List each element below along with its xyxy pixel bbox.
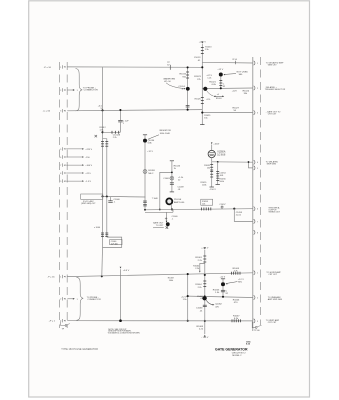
- label left of V8: [181, 297, 187, 302]
- note text block: [108, 329, 140, 335]
- svg-text:2.2k: 2.2k: [113, 137, 117, 139]
- junction H fork: [248, 161, 250, 163]
- right pin 7: [254, 219, 258, 223]
- label right of lamp: [178, 177, 184, 182]
- svg-text:R1016: R1016: [180, 74, 187, 76]
- svg-text:1: 1: [77, 299, 78, 301]
- label C1054 .001: [219, 172, 226, 177]
- wire G output bus: [145, 209, 253, 210]
- label C1011 1uF: [123, 121, 130, 126]
- hatch on pair lower ends: [101, 233, 108, 237]
- resistor R1061: [203, 256, 206, 262]
- svg-text:4: 4: [257, 162, 258, 164]
- left pin 10: [60, 297, 65, 301]
- label B1059 NE-2: [148, 170, 155, 175]
- wire +6.5V vertical V7: [120, 267, 122, 321]
- svg-text:2: 2: [257, 88, 258, 90]
- right pin 9 label: [266, 271, 281, 276]
- svg-text:-P = 16: -P = 16: [47, 277, 55, 279]
- junction V7 wire K: [119, 319, 122, 322]
- left pin 3: [60, 109, 65, 113]
- right connector strip rails: [253, 57, 261, 331]
- svg-text:2: 2: [60, 90, 61, 92]
- svg-text:-P = 16: -P = 16: [44, 67, 52, 69]
- svg-text:AMP SWP GEN: AMP SWP GEN: [268, 298, 283, 301]
- resistor chain B: [216, 162, 220, 185]
- label x1040: [94, 227, 101, 229]
- right pins 4-5 label: [266, 161, 279, 166]
- capacitor tick on V2: [186, 106, 190, 107]
- junction bus A / V2: [187, 66, 189, 68]
- label R1023 27k: [194, 76, 201, 81]
- Q1062 emitter arrow: [206, 300, 214, 305]
- wire V1 to R1012 node: [102, 110, 104, 138]
- right pin 8: [254, 230, 258, 234]
- label R1067 8.2k: [233, 316, 240, 321]
- left pin 3 label: [43, 111, 51, 113]
- wire to right pin 2: [202, 87, 253, 90]
- svg-text:3: 3: [257, 113, 258, 115]
- drawing number 1066: [246, 341, 251, 345]
- capacitor C on Q1064 emitter: [221, 290, 225, 292]
- svg-text:-C = 06: -C = 06: [43, 111, 51, 113]
- wire K bottom bus: [67, 320, 253, 322]
- chain ground bar: [170, 191, 174, 193]
- svg-text:5: 5: [60, 149, 61, 151]
- label R1066 470 below wire J: [233, 300, 240, 305]
- svg-text:+12 V: +12 V: [238, 279, 244, 281]
- leader to gate blob: [153, 227, 164, 229]
- left pin 2: [60, 88, 65, 92]
- right pin 3: [254, 111, 258, 115]
- polarity mark on gate stub: [165, 217, 167, 219]
- right pin 10 label: [268, 296, 283, 301]
- svg-text:VOLTAGES & CONDITIONS SHOWN: VOLTAGES & CONDITIONS SHOWN: [108, 331, 140, 334]
- test point TP below left pin 11: [61, 322, 70, 331]
- junction dots wire F: [101, 195, 107, 197]
- left supply pin arrow 5: [66, 156, 84, 158]
- svg-text:2: 2: [257, 297, 258, 299]
- svg-text:2: 2: [60, 299, 61, 301]
- label +12V on chain: [147, 151, 153, 153]
- left supply pin arrow 8: [66, 180, 84, 182]
- wire vertical V3: [201, 44, 203, 125]
- label C 82: [226, 290, 229, 295]
- svg-text:+225 V: +225 V: [199, 42, 207, 44]
- label R1063 1.5k: [213, 289, 220, 294]
- supply +225V bottom: [201, 247, 209, 249]
- junction Q1019 wire D: [220, 87, 222, 89]
- resistor R1013: [201, 48, 204, 54]
- capacitor C1063 bars: [203, 305, 207, 306]
- label +6.5V at junction: [98, 106, 103, 111]
- tube V1050: [208, 150, 215, 157]
- capacitor C1011 branch: [118, 110, 122, 132]
- Q1064 emitter to wire J: [222, 286, 224, 297]
- transistor Q1034: [143, 139, 147, 143]
- svg-text:1: 1: [77, 90, 78, 92]
- svg-text:R1061: R1061: [195, 257, 202, 259]
- junction V8 wire I: [187, 273, 189, 275]
- tick mark x left of node: [95, 135, 97, 137]
- svg-text:- 150 V: - 150 V: [209, 189, 216, 191]
- capacitor C1046 boxed label: [110, 240, 122, 246]
- svg-text:TIMING CKT: TIMING CKT: [268, 211, 280, 213]
- svg-text:V1050A: V1050A: [217, 150, 226, 153]
- RC pair lower run: [103, 196, 107, 247]
- svg-text:SWP GEN: SWP GEN: [267, 164, 277, 166]
- hatch on RC pair: [101, 142, 108, 147]
- gate out lower wire: [145, 210, 173, 213]
- svg-text:6: 6: [60, 157, 61, 159]
- svg-text:- 150 V: - 150 V: [201, 337, 209, 339]
- junction loop top: [171, 172, 173, 174]
- junction Q1064 wire J: [222, 296, 224, 298]
- svg-text:2x.01: 2x.01: [236, 214, 242, 216]
- wire tube cathode to H: [211, 158, 213, 162]
- svg-text:NE-2: NE-2: [148, 173, 154, 175]
- left pin 7: [60, 171, 65, 175]
- transistor Q1014: [186, 87, 190, 91]
- R1045 C1043 chain: [170, 161, 174, 192]
- svg-text:8: 8: [257, 232, 258, 234]
- label C1062 near V5 wire J: [197, 296, 204, 300]
- wire mid bus C: [67, 110, 202, 111]
- wire F from sweep box: [103, 195, 146, 198]
- label C1040 .1 right of stub: [172, 216, 179, 221]
- junction V1 bottom: [101, 275, 103, 277]
- svg-text:+12 V: +12 V: [217, 69, 223, 71]
- left pin 11 label: [49, 321, 56, 323]
- resistor R1058 on wire G: [201, 199, 213, 210]
- left pin 8: [60, 179, 65, 183]
- label C1013 .01: [194, 57, 201, 62]
- svg-text:TO CRT: TO CRT: [156, 225, 164, 227]
- junction V3 / wire E: [201, 112, 203, 114]
- svg-text:+12 V: +12 V: [220, 277, 226, 279]
- test point below right strip: [252, 322, 261, 333]
- right pin 9: [254, 271, 258, 275]
- svg-text:R1021: R1021: [209, 81, 216, 83]
- right pin 3 label: [266, 111, 281, 116]
- neon lamp B1059: [143, 170, 147, 174]
- right pin 11: [254, 319, 258, 323]
- svg-text:R1045: R1045: [174, 165, 181, 167]
- left supply pin arrow 6: [66, 164, 84, 166]
- tube Q1040: [166, 198, 172, 204]
- brace to probe connector (top): [76, 69, 83, 111]
- junction V5 wire K: [204, 320, 206, 322]
- resistor R1067 on wire K: [232, 319, 241, 322]
- wire vertical V8: [187, 274, 189, 321]
- label R1025 4.7k: [195, 99, 212, 102]
- wire vertical V2: [187, 67, 189, 109]
- svg-text:TRIGGER SELECTOR: TRIGGER SELECTOR: [265, 89, 286, 91]
- svg-text:+12V: +12V: [232, 91, 238, 93]
- double arrow symbol below wire D: [207, 91, 224, 97]
- svg-text:Q1062: Q1062: [215, 304, 222, 306]
- label C1043: [163, 178, 170, 180]
- label below double arrow: [216, 98, 222, 100]
- right pin 11 label: [266, 319, 280, 324]
- svg-text:3: 3: [257, 321, 258, 323]
- label R1051 15k: [204, 165, 211, 170]
- wire top bus A: [67, 66, 202, 68]
- svg-text:B1059: B1059: [148, 170, 155, 172]
- svg-text:+12 V: +12 V: [147, 151, 153, 153]
- svg-text:8: 8: [60, 173, 61, 175]
- label C82: [223, 84, 226, 89]
- junction V8 wire J: [187, 295, 189, 297]
- label C1014 4.7: [178, 86, 185, 91]
- svg-text:CRT CKT: CRT CKT: [268, 274, 277, 276]
- wire V1 lowest to bottom bus: [101, 247, 104, 276]
- capacitor C1040 stub: [108, 197, 120, 203]
- junction bus A / V3: [201, 66, 203, 68]
- label C1058: [236, 212, 243, 217]
- junction H chainB: [217, 161, 219, 163]
- left pin 4: [60, 147, 65, 151]
- wire B1059 chain: [144, 143, 146, 210]
- junction loop bottom: [159, 209, 161, 211]
- svg-text:1: 1: [60, 277, 61, 279]
- label on wire I left: [168, 277, 175, 281]
- junction V8 wire K: [187, 320, 189, 322]
- label R1056 100k: [219, 179, 226, 184]
- junction R1012 node: [101, 131, 103, 133]
- svg-text:1: 1: [60, 67, 61, 69]
- wire vertical V5: [204, 250, 206, 334]
- left supply pin label -1.5 V: [85, 181, 91, 183]
- label -150V ground: [209, 189, 216, 191]
- label R1021 6.8k: [209, 81, 216, 86]
- svg-text:CRT CKT: CRT CKT: [268, 322, 277, 324]
- small caps on chain: [143, 201, 147, 206]
- right pin 1 label: [266, 61, 284, 66]
- resistor R1065 on wire I: [232, 272, 241, 275]
- right pin 10: [254, 295, 258, 299]
- svg-text:6: 6: [257, 209, 258, 211]
- label resistor 100k with leader: [148, 130, 171, 139]
- svg-text:7: 7: [60, 165, 61, 167]
- svg-text:7: 7: [257, 221, 258, 223]
- svg-text:1/2 6U8: 1/2 6U8: [217, 154, 226, 156]
- wire I lower bus: [67, 273, 253, 277]
- left supply pin arrow 4: [66, 148, 84, 150]
- capacitor on chain: [170, 183, 174, 185]
- bottom labels chain: [200, 182, 207, 187]
- supply tick above tube: [211, 142, 220, 145]
- right pin 6 label: [268, 206, 280, 213]
- wire tube top lead: [211, 145, 213, 151]
- sweep box caption: [81, 201, 96, 205]
- label R1064 2.2k: [195, 284, 202, 289]
- wire vertical from bus A to bus C: [102, 67, 104, 110]
- svg-text:R1068: R1068: [197, 326, 204, 328]
- wire to right pin 1: [202, 61, 253, 64]
- resistor R1012 horizontal: [103, 131, 121, 134]
- svg-text:+100 V: +100 V: [85, 165, 92, 167]
- resistor R1025: [201, 98, 204, 104]
- right pin 2: [254, 86, 258, 90]
- svg-text:R1023: R1023: [194, 76, 201, 78]
- label R1024 33k below wire D: [243, 91, 250, 96]
- left pin 6: [60, 163, 65, 167]
- svg-text:1uF 400: 1uF 400: [111, 243, 118, 245]
- junction Q1062 wire J: [204, 295, 206, 297]
- label R1065 4.7k: [233, 268, 240, 273]
- left pin 2 stub arrow: [67, 89, 77, 92]
- tick R56 on wire: [233, 59, 238, 64]
- left pin 5: [60, 155, 65, 159]
- label R1029 15k: [204, 115, 211, 120]
- svg-text:CRT CKT: CRT CKT: [268, 114, 277, 116]
- svg-text:+225 V: +225 V: [85, 149, 92, 151]
- label C1049 .01: [178, 186, 185, 191]
- label R1012 1.5k: [100, 127, 107, 131]
- supply +225V top: [199, 42, 207, 44]
- label above double arrow: [217, 94, 219, 96]
- svg-text:CONNECTOR: CONNECTOR: [87, 299, 101, 301]
- svg-text:+22.5: +22.5: [85, 173, 91, 175]
- transistor Q1064: [221, 282, 225, 286]
- svg-text:+P = 1: +P = 1: [49, 321, 56, 323]
- svg-text:+100V: +100V: [213, 144, 220, 146]
- label to probe connector (top): [83, 87, 98, 91]
- wire to right pin 3: [202, 112, 253, 114]
- junction wire G branch: [233, 208, 235, 210]
- right pin 1: [254, 61, 258, 65]
- wire H to right pins 4/5: [212, 162, 253, 168]
- label R1062 2.2k: [193, 266, 200, 271]
- right pin 2 label: [265, 86, 286, 91]
- svg-text:C1013: C1013: [194, 57, 201, 59]
- svg-text:+225 V: +225 V: [201, 247, 209, 249]
- parallel RC pair rails: [103, 139, 107, 197]
- svg-text:C1014: C1014: [178, 86, 185, 88]
- label C1012B below: [113, 134, 121, 138]
- label Q1034: [148, 140, 155, 145]
- svg-text:(SWP GEN) CKT: (SWP GEN) CKT: [81, 203, 96, 205]
- svg-text:Q1034: Q1034: [148, 140, 155, 142]
- svg-text:NOT USED: NOT USED: [237, 71, 249, 73]
- neon lamp C1043: [170, 176, 174, 180]
- svg-text:3: 3: [60, 111, 61, 113]
- left pin 9 label: [47, 277, 55, 279]
- svg-text:PULSE: PULSE: [174, 199, 182, 201]
- svg-text:100k 1040: 100k 1040: [160, 133, 171, 135]
- svg-text:9: 9: [60, 181, 61, 183]
- junction G left end: [144, 209, 146, 211]
- supply -150V bottom: [201, 335, 209, 339]
- gate out stub and blob: [166, 212, 170, 229]
- label gate out to crt: [153, 221, 164, 226]
- left pin 1 label: [44, 67, 52, 69]
- branch to right pin 7: [234, 209, 253, 222]
- label +67V right of V3: [206, 75, 212, 80]
- transistor Q1019: [219, 73, 223, 77]
- svg-text:RESISTOR: RESISTOR: [160, 130, 172, 132]
- svg-text:CONNECTOR: CONNECTOR: [84, 90, 98, 92]
- junction bus C / C1011: [119, 109, 121, 111]
- left stub R1062 off V5: [199, 264, 205, 273]
- svg-text:1: 1: [257, 63, 258, 65]
- svg-text:R1024: R1024: [216, 98, 222, 100]
- left supply pin label +22.5: [85, 173, 91, 175]
- label R1068: [197, 326, 204, 331]
- svg-text:C1063: C1063: [196, 308, 203, 310]
- jog wire to C1046 loop: [103, 237, 122, 247]
- Q1040 bottom lead: [170, 204, 173, 209]
- svg-text:GATE GENERATOR: GATE GENERATOR: [215, 347, 248, 351]
- label Q1062: [215, 304, 222, 309]
- junction bus C / V1: [101, 109, 103, 111]
- wire J: [188, 296, 253, 297]
- label R1027 56 above wire: [233, 107, 240, 112]
- caption type 163: [61, 348, 98, 351]
- svg-text:x 1040: x 1040: [94, 227, 101, 229]
- V3 end bar: [200, 124, 204, 126]
- Q1034 top stub: [143, 135, 147, 139]
- label +6.5V: [123, 270, 130, 272]
- label R1013 15k: [205, 47, 212, 52]
- label R1016 910: [180, 74, 187, 79]
- svg-text:MODEL 2: MODEL 2: [232, 355, 242, 357]
- transistor Q1062: [202, 296, 206, 300]
- svg-text:1: 1: [257, 273, 258, 275]
- svg-text:100k: 100k: [169, 280, 173, 282]
- svg-text:+6.5 V: +6.5 V: [123, 270, 130, 272]
- svg-text:TYPE 163 PULSE GENERATOR: TYPE 163 PULSE GENERATOR: [61, 348, 98, 351]
- svg-text:100k: 100k: [202, 184, 206, 186]
- left supply pin label -150: [85, 157, 90, 159]
- left supply pin arrow 7: [66, 172, 84, 174]
- wire Q1019 emitter to wire D: [220, 77, 222, 89]
- label V1050: [217, 150, 226, 156]
- label +12V above Q1019: [217, 69, 223, 71]
- left pin 9: [60, 275, 65, 279]
- transistor Q1023 on wire D: [203, 87, 207, 91]
- svg-text:T 1040: T 1040: [152, 198, 158, 200]
- right pin 4: [254, 160, 258, 164]
- label R1045 1k: [174, 165, 181, 170]
- waveform label with leader to Q1014: [163, 77, 185, 89]
- resistor chain A below tube: [210, 162, 214, 187]
- svg-text:AT +50: AT +50: [164, 80, 171, 83]
- label Q1040: [174, 199, 185, 204]
- label NOT USED SEL with leader: [223, 71, 248, 76]
- svg-text:5: 5: [257, 168, 258, 170]
- resistor R1064: [203, 281, 206, 287]
- test point TP67 tick on bus A: [167, 62, 170, 70]
- sweep gen timing box: [81, 194, 103, 199]
- left supply pin label +225 V: [85, 149, 92, 151]
- resistor R1021 on emitter: [219, 81, 222, 86]
- label C1063 .01: [196, 308, 203, 313]
- left pin 1: [60, 65, 65, 69]
- label SEL +12V with leader: [226, 279, 245, 285]
- capacitor C1057 tick: [219, 204, 226, 209]
- junction bus C / V2: [187, 109, 189, 111]
- label R1061 2.2k: [195, 257, 202, 262]
- svg-text:+6: +6: [217, 94, 219, 96]
- junction Q1040 wire G: [171, 208, 173, 210]
- label SEL 82 below wire D: [232, 91, 238, 93]
- junction V5 wire I: [204, 274, 206, 276]
- Q1064 collector stub: [220, 277, 226, 283]
- resistor R1016: [186, 72, 189, 78]
- svg-text:C1043: C1043: [163, 178, 170, 180]
